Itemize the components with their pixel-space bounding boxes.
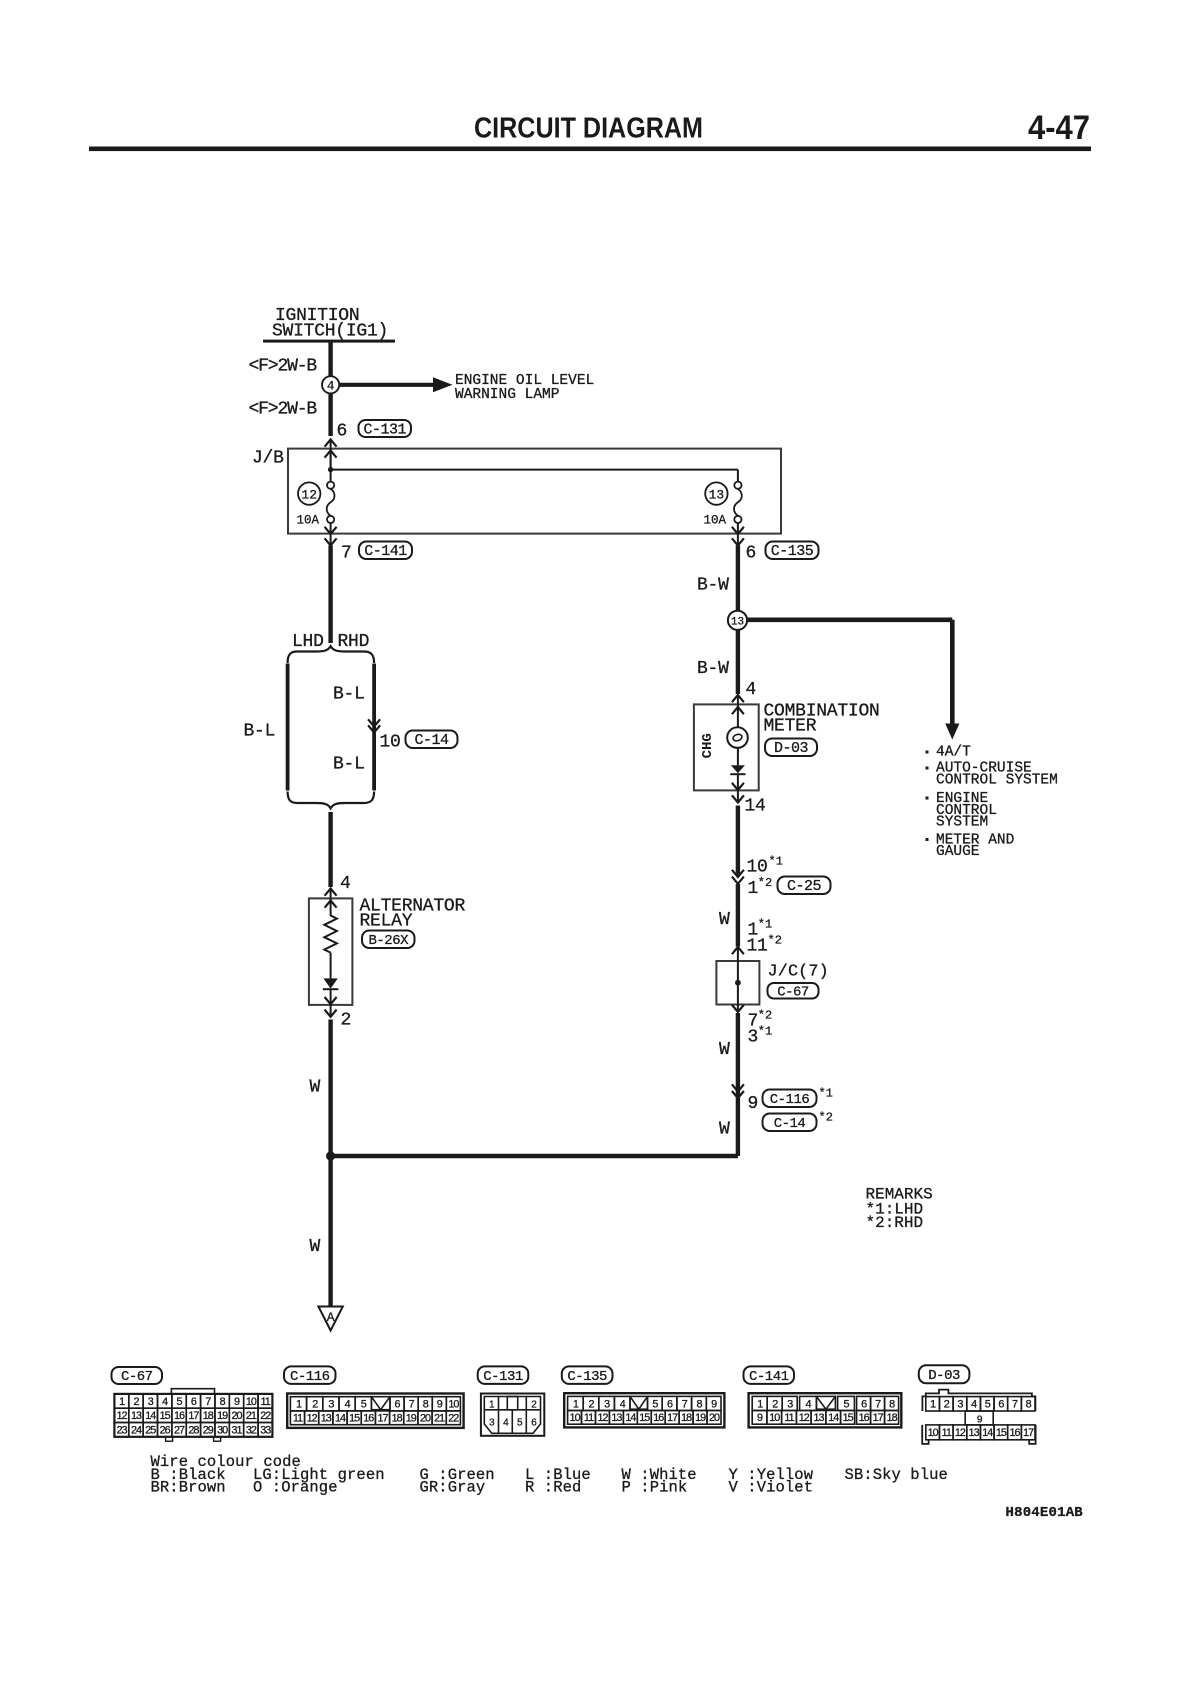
fuse 12 (10A) — [327, 482, 334, 489]
svg-text:33: 33 — [260, 1425, 271, 1437]
wire circle4 to J/B — [328, 389, 332, 436]
svg-text:6: 6 — [746, 544, 757, 564]
svg-text:CHG: CHG — [700, 733, 716, 758]
svg-text:B-L: B-L — [333, 685, 365, 705]
svg-text:B-W: B-W — [697, 576, 729, 596]
svg-text:B-W: B-W — [697, 659, 729, 679]
connector C-141 label — [744, 1366, 795, 1384]
svg-text:METER: METER — [764, 716, 817, 736]
svg-text:11: 11 — [584, 1412, 594, 1424]
svg-text:15: 15 — [639, 1412, 650, 1424]
svg-text:W: W — [310, 1237, 321, 1257]
svg-text:10: 10 — [380, 733, 401, 753]
svg-text:A: A — [327, 1310, 335, 1325]
svg-text:W: W — [719, 1120, 730, 1140]
svg-text:15: 15 — [996, 1427, 1007, 1439]
svg-text:*2:RHD: *2:RHD — [866, 1214, 924, 1232]
svg-text:14: 14 — [335, 1413, 346, 1425]
svg-text:CONTROL SYSTEM: CONTROL SYSTEM — [936, 772, 1058, 788]
svg-text:20: 20 — [709, 1412, 720, 1424]
svg-text:*1: *1 — [758, 918, 772, 932]
svg-text:C-25: C-25 — [787, 878, 822, 895]
resistor coil in relay — [324, 916, 337, 953]
svg-text:17: 17 — [188, 1410, 199, 1422]
svg-text:H804E01AB: H804E01AB — [1006, 1505, 1084, 1521]
diode in combination meter — [731, 765, 745, 773]
svg-text:D-03: D-03 — [774, 740, 809, 757]
svg-text:4: 4 — [327, 379, 335, 393]
svg-text:11: 11 — [261, 1396, 271, 1408]
wire RHD branch upper — [372, 664, 376, 727]
svg-text:16: 16 — [653, 1412, 664, 1424]
svg-text:14: 14 — [625, 1412, 636, 1424]
svg-text:J/C(7): J/C(7) — [768, 963, 829, 982]
svg-text:19: 19 — [695, 1412, 706, 1424]
svg-text:24: 24 — [131, 1425, 142, 1437]
svg-text:C-14: C-14 — [414, 732, 449, 749]
connector arrows C-116 — [732, 1084, 744, 1091]
svg-text:32: 32 — [246, 1425, 257, 1437]
svg-text:13: 13 — [731, 617, 744, 629]
svg-text:17: 17 — [667, 1412, 678, 1424]
connector arrows into combination meter — [732, 695, 744, 702]
wire J/B internal horizontal — [331, 469, 738, 471]
connector arrows into J/B — [325, 440, 337, 447]
connector C-116 label — [284, 1366, 336, 1384]
svg-text:16: 16 — [174, 1410, 185, 1422]
joint connector J/C(7) box — [716, 961, 759, 1005]
header rule — [89, 147, 1091, 152]
svg-text:15: 15 — [160, 1410, 171, 1422]
wire junction to terminal A — [328, 1156, 332, 1306]
svg-text:7: 7 — [341, 544, 352, 564]
svg-text:SB:Sky blue: SB:Sky blue — [845, 1466, 948, 1484]
svg-text:B-L: B-L — [244, 722, 276, 742]
svg-text:4: 4 — [340, 874, 351, 894]
node 4 engine-oil-level tap — [322, 376, 339, 393]
systems list — [926, 751, 929, 754]
svg-text:21: 21 — [246, 1410, 257, 1422]
svg-text:25: 25 — [145, 1425, 156, 1437]
wire J/B to LHD/RHD brace — [328, 546, 332, 644]
svg-text:15: 15 — [349, 1413, 360, 1425]
svg-text:CIRCUIT DIAGRAM: CIRCUIT DIAGRAM — [474, 113, 703, 145]
svg-text:28: 28 — [188, 1425, 199, 1437]
wire diode to meter bottom — [737, 774, 739, 803]
wire meter internal top — [737, 695, 739, 728]
svg-text:4A/T: 4A/T — [936, 745, 971, 761]
svg-text:C-135: C-135 — [567, 1369, 607, 1385]
svg-text:19: 19 — [217, 1410, 228, 1422]
terminal A triangle — [318, 1307, 342, 1331]
svg-text:V :Violet: V :Violet — [729, 1479, 814, 1497]
connector C-131 label — [478, 1366, 529, 1384]
junction block J/B box — [288, 449, 781, 534]
svg-text:10: 10 — [570, 1412, 581, 1424]
junction dot J/B — [328, 467, 333, 472]
svg-text:16: 16 — [859, 1412, 870, 1424]
svg-text:*2: *2 — [758, 1009, 772, 1023]
svg-text:18: 18 — [203, 1410, 214, 1422]
svg-text:C-67: C-67 — [121, 1369, 153, 1385]
svg-text:14: 14 — [982, 1427, 993, 1439]
fuse 13 number circle — [705, 482, 727, 504]
brace top LHD/RHD — [288, 646, 375, 663]
svg-text:B-26X: B-26X — [368, 933, 409, 949]
combination meter box — [694, 704, 759, 790]
svg-text:*1: *1 — [758, 1025, 772, 1039]
svg-text:26: 26 — [160, 1425, 171, 1437]
svg-text:12: 12 — [799, 1412, 810, 1424]
svg-text:14: 14 — [745, 797, 766, 817]
svg-text:15: 15 — [843, 1412, 854, 1424]
svg-text:6: 6 — [337, 422, 348, 442]
svg-text:W: W — [310, 1078, 321, 1098]
svg-text:P :Pink: P :Pink — [622, 1479, 688, 1497]
svg-text:9: 9 — [748, 1094, 759, 1114]
svg-text:BR:Brown: BR:Brown — [151, 1479, 226, 1497]
combination meter code D-03 — [765, 739, 817, 757]
svg-text:<F>2W-B: <F>2W-B — [249, 357, 318, 377]
wire resistor to diode — [330, 953, 332, 979]
connector C-131 pinout — [481, 1394, 544, 1436]
svg-text:10: 10 — [747, 858, 768, 878]
svg-text:GR:Gray: GR:Gray — [420, 1479, 486, 1497]
svg-text:18: 18 — [681, 1412, 692, 1424]
wire node 13 to combination meter — [736, 630, 740, 695]
svg-text:10: 10 — [928, 1427, 939, 1439]
wire relay internal top — [330, 889, 332, 917]
svg-text:*1: *1 — [769, 855, 783, 869]
svg-text:13: 13 — [813, 1412, 824, 1424]
svg-text:20: 20 — [231, 1410, 242, 1422]
wire LHD branch — [286, 664, 290, 791]
svg-text:10: 10 — [448, 1399, 459, 1411]
svg-text:13: 13 — [131, 1410, 142, 1422]
svg-text:10A: 10A — [704, 514, 727, 528]
wire brace to alternator relay — [328, 812, 332, 887]
wire relay to junction — [328, 1020, 332, 1157]
svg-text:30: 30 — [217, 1425, 228, 1437]
svg-text:19: 19 — [406, 1413, 417, 1425]
connector arrow into J/C — [732, 947, 744, 954]
svg-text:J/B: J/B — [252, 449, 284, 469]
svg-text:13: 13 — [611, 1412, 622, 1424]
svg-text:C-135: C-135 — [771, 543, 814, 560]
svg-text:29: 29 — [203, 1425, 214, 1437]
svg-text:SWITCH(IG1): SWITCH(IG1) — [272, 322, 388, 342]
svg-text:17: 17 — [1023, 1427, 1034, 1439]
connector C-67 pinout — [114, 1389, 272, 1442]
svg-text:O :Orange: O :Orange — [253, 1479, 338, 1497]
charge warning lamp CHG — [727, 727, 748, 748]
svg-text:4: 4 — [746, 680, 757, 700]
svg-text:W: W — [719, 910, 730, 930]
connector arrows out of alternator relay — [325, 997, 337, 1004]
svg-text:2: 2 — [341, 1011, 352, 1031]
svg-text:4-47: 4-47 — [1028, 109, 1090, 147]
svg-text:1: 1 — [748, 879, 759, 899]
svg-text:20: 20 — [420, 1413, 431, 1425]
connector C-135 label — [562, 1366, 613, 1384]
svg-text:17: 17 — [873, 1412, 884, 1424]
connector arrows RHD C-14 — [368, 719, 380, 726]
diode in alternator relay — [323, 978, 337, 988]
svg-text:12: 12 — [597, 1412, 608, 1424]
svg-text:C-116: C-116 — [770, 1092, 810, 1108]
svg-text:21: 21 — [434, 1413, 445, 1425]
connector arrow out of J/C — [732, 1005, 744, 1012]
svg-text:13: 13 — [709, 487, 725, 502]
svg-text:13: 13 — [321, 1413, 332, 1425]
svg-text:W: W — [719, 1040, 730, 1060]
svg-text:12: 12 — [955, 1427, 966, 1439]
connector D-03 pinout — [922, 1390, 1035, 1444]
svg-text:10A: 10A — [297, 514, 320, 528]
svg-text:11: 11 — [293, 1413, 303, 1425]
wire RHD branch lower — [372, 726, 376, 791]
svg-text:D-03: D-03 — [928, 1368, 960, 1384]
connector arrows out of J/B left — [325, 527, 337, 534]
J/C code C-67 — [768, 983, 819, 999]
svg-text:11: 11 — [784, 1412, 794, 1424]
connector C-135 pinout — [564, 1393, 724, 1427]
svg-text:14: 14 — [145, 1410, 156, 1422]
wire J/B internal right down — [737, 470, 739, 482]
svg-text:C-131: C-131 — [483, 1369, 523, 1385]
svg-text:10: 10 — [769, 1412, 780, 1424]
svg-text:12: 12 — [301, 487, 317, 502]
svg-text:*2: *2 — [758, 876, 772, 890]
wire meter to C-25 — [736, 806, 740, 877]
alternator relay code B-26X — [362, 931, 415, 949]
svg-text:C-116: C-116 — [290, 1369, 330, 1385]
svg-text:31: 31 — [231, 1425, 242, 1437]
svg-text:12: 12 — [117, 1410, 128, 1422]
wire ignition switch down — [328, 342, 332, 381]
wire through J/C — [737, 947, 739, 1012]
wire J/B to node 13 — [736, 546, 740, 612]
svg-text:*1: *1 — [819, 1087, 833, 1101]
svg-text:17: 17 — [377, 1413, 388, 1425]
svg-text:14: 14 — [828, 1412, 839, 1424]
svg-text:13: 13 — [969, 1427, 980, 1439]
svg-text:27: 27 — [174, 1425, 185, 1437]
junction dot bottom — [326, 1151, 335, 1160]
svg-text:22: 22 — [260, 1410, 271, 1422]
connector arrows C-25 — [732, 870, 744, 877]
svg-text:3: 3 — [748, 1028, 759, 1048]
wire branch to systems arrow — [747, 617, 952, 622]
svg-text:C-67: C-67 — [777, 984, 809, 1000]
svg-text:GAUGE: GAUGE — [936, 844, 980, 860]
wire lamp to diode — [737, 748, 739, 765]
svg-text:23: 23 — [117, 1425, 128, 1437]
connector arrows out of J/B right — [732, 527, 744, 534]
wire bottom horizontal join — [331, 1154, 738, 1159]
connector D-03 label — [919, 1365, 970, 1383]
svg-text:18: 18 — [887, 1412, 898, 1424]
svg-text:B-L: B-L — [333, 755, 365, 775]
svg-text:C-141: C-141 — [364, 543, 407, 560]
wire C-25 to J/C — [736, 884, 740, 947]
node 13 circle — [728, 611, 747, 630]
connector C-116 pinout — [287, 1394, 463, 1428]
svg-text:11: 11 — [942, 1427, 952, 1439]
wire J/C to C-116 — [736, 1013, 740, 1156]
connector arrows out of combination meter — [732, 783, 744, 790]
svg-text:RELAY: RELAY — [360, 912, 413, 932]
svg-text:WARNING LAMP: WARNING LAMP — [455, 387, 559, 403]
svg-text:LHD: LHD — [292, 632, 324, 652]
J/C junction dot — [735, 980, 741, 986]
svg-text:18: 18 — [392, 1413, 403, 1425]
svg-text:C-131: C-131 — [363, 421, 406, 438]
svg-text:RHD: RHD — [338, 632, 370, 652]
svg-text:R :Red: R :Red — [525, 1479, 581, 1497]
svg-text:C-141: C-141 — [749, 1369, 789, 1385]
fuse 13 (10A) — [734, 482, 741, 489]
svg-text:C-14: C-14 — [774, 1116, 806, 1132]
connector C-141 pinout — [749, 1393, 902, 1427]
svg-text:16: 16 — [1010, 1427, 1021, 1439]
svg-text:16: 16 — [363, 1413, 374, 1425]
svg-text:<F>2W-B: <F>2W-B — [249, 400, 318, 420]
wire to engine oil level warning lamp — [340, 383, 435, 387]
wire inside J/B left — [330, 448, 332, 482]
svg-text:12: 12 — [307, 1413, 318, 1425]
svg-text:22: 22 — [448, 1413, 459, 1425]
svg-text:SYSTEM: SYSTEM — [936, 815, 988, 831]
fuse 12 number circle — [298, 482, 320, 504]
connector arrows into alternator relay — [325, 889, 337, 896]
svg-text:*2: *2 — [819, 1111, 833, 1125]
brace bottom LHD/RHD — [288, 792, 375, 809]
svg-text:10: 10 — [246, 1396, 257, 1408]
wire diode to relay bottom — [330, 989, 332, 1017]
alternator relay box — [309, 898, 353, 1005]
connector C-67 label — [112, 1367, 163, 1384]
svg-text:*2: *2 — [768, 934, 782, 948]
svg-text:11: 11 — [747, 937, 768, 957]
